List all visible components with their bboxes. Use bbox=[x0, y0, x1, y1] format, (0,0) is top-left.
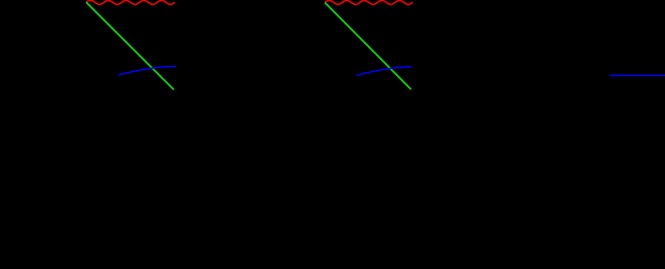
incline line 1 (green) bbox=[86, 2, 174, 89]
hatched support wave 2 (red) bbox=[325, 0, 413, 4]
horizontal trajectory line 3 (blue) bbox=[610, 75, 665, 77]
hatched support wave 1 (red) bbox=[86, 0, 175, 4]
trajectory arc 1 (blue) bbox=[118, 66, 176, 75]
incline line 2 (green) bbox=[325, 3, 411, 90]
trajectory arc 2 (blue) bbox=[357, 67, 412, 76]
